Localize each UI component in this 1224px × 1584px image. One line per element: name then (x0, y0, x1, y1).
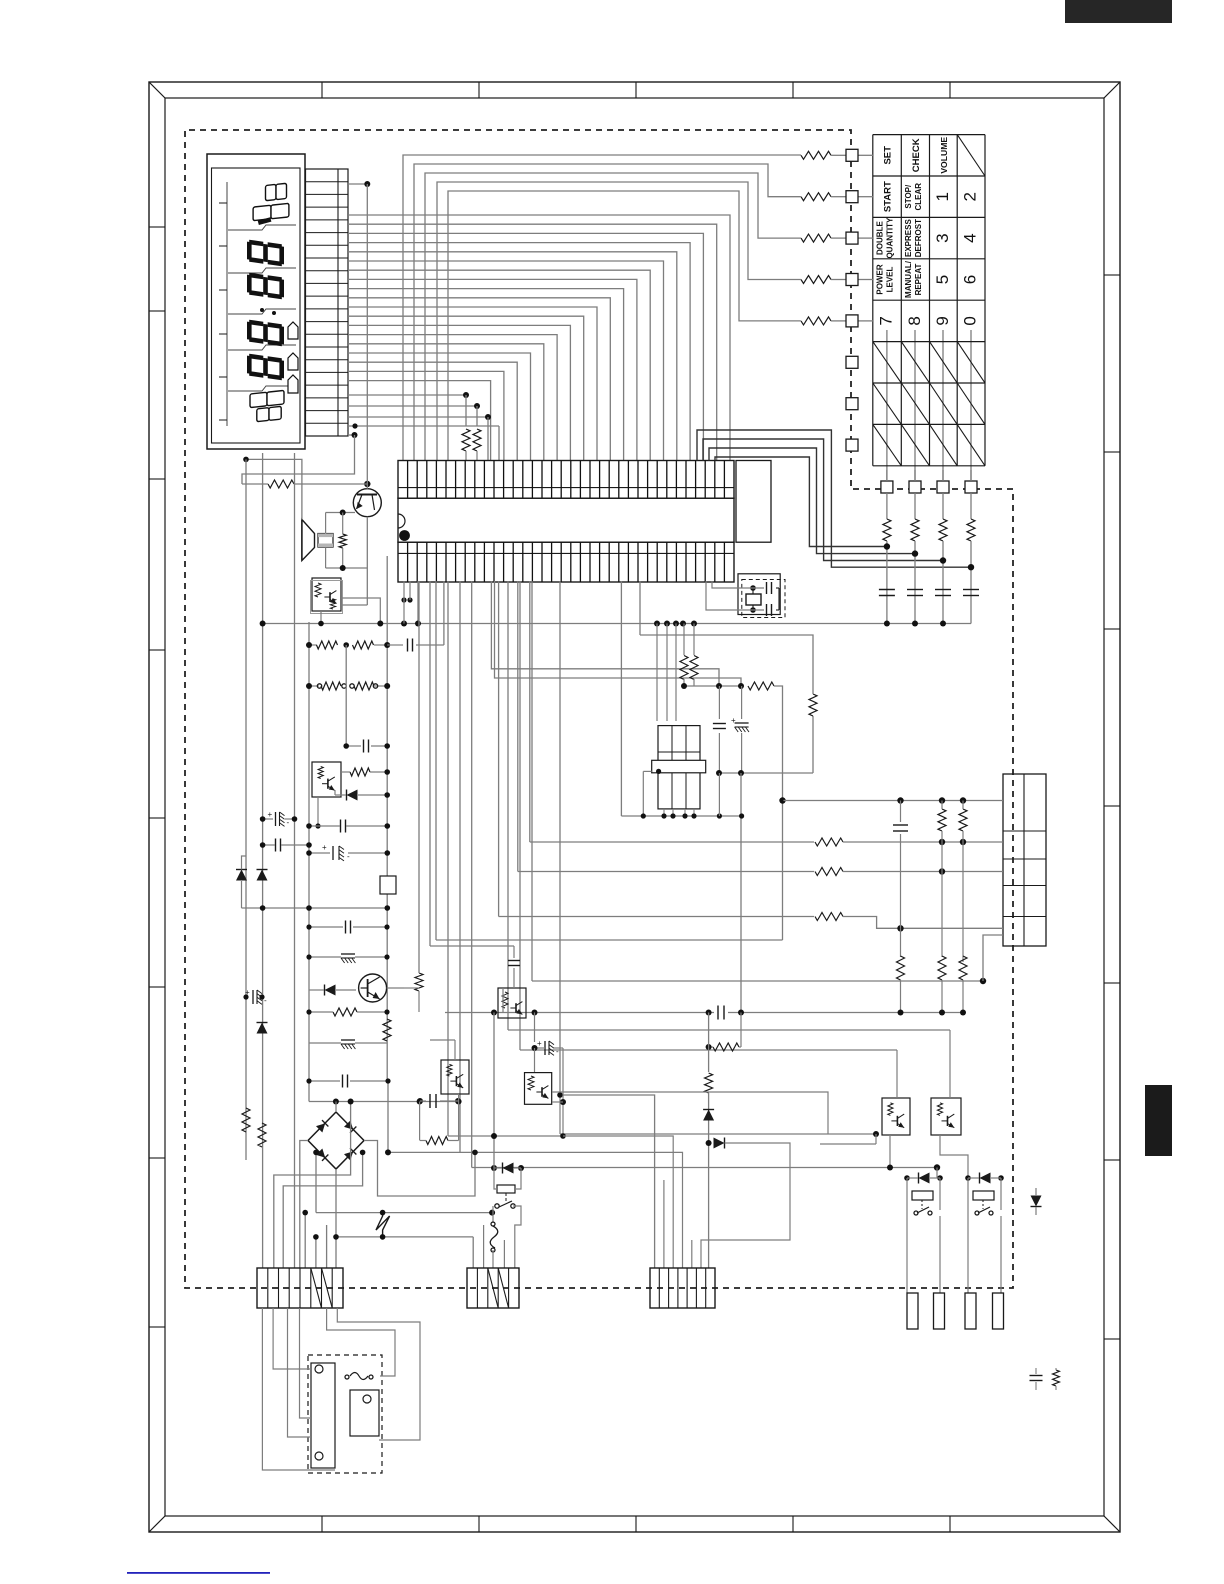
svg-text:+: + (268, 810, 273, 819)
svg-text:5: 5 (933, 275, 952, 284)
svg-text:CLEAR: CLEAR (914, 183, 923, 211)
svg-text:DOUBLE: DOUBLE (876, 221, 885, 255)
svg-text:+: + (537, 1039, 542, 1048)
svg-text:7: 7 (877, 316, 896, 325)
svg-text:SET: SET (883, 146, 894, 165)
svg-text:REPEAT: REPEAT (914, 263, 923, 295)
svg-text:9: 9 (933, 316, 952, 325)
svg-text:EXPRESS: EXPRESS (904, 219, 913, 257)
svg-text:+: + (731, 716, 736, 725)
svg-text:LEVEL: LEVEL (886, 266, 895, 292)
svg-text:QUANTITY: QUANTITY (886, 217, 895, 259)
svg-text:STOP/: STOP/ (904, 184, 913, 209)
svg-text:0: 0 (961, 316, 980, 325)
svg-text:3: 3 (933, 233, 952, 242)
svg-text:CHECK: CHECK (911, 138, 922, 172)
svg-text:-: - (347, 852, 350, 861)
svg-text:8: 8 (905, 316, 924, 325)
svg-text:START: START (883, 181, 894, 212)
svg-text:1: 1 (933, 192, 952, 201)
svg-text:POWER: POWER (876, 264, 885, 294)
svg-text:DEFROST: DEFROST (914, 219, 923, 257)
svg-text:2: 2 (961, 192, 980, 201)
svg-text:MANUAL/: MANUAL/ (904, 260, 913, 298)
svg-text:VOLUME: VOLUME (939, 137, 949, 174)
svg-text:4: 4 (961, 233, 980, 242)
svg-text:+: + (322, 843, 327, 852)
svg-text:6: 6 (961, 275, 980, 284)
